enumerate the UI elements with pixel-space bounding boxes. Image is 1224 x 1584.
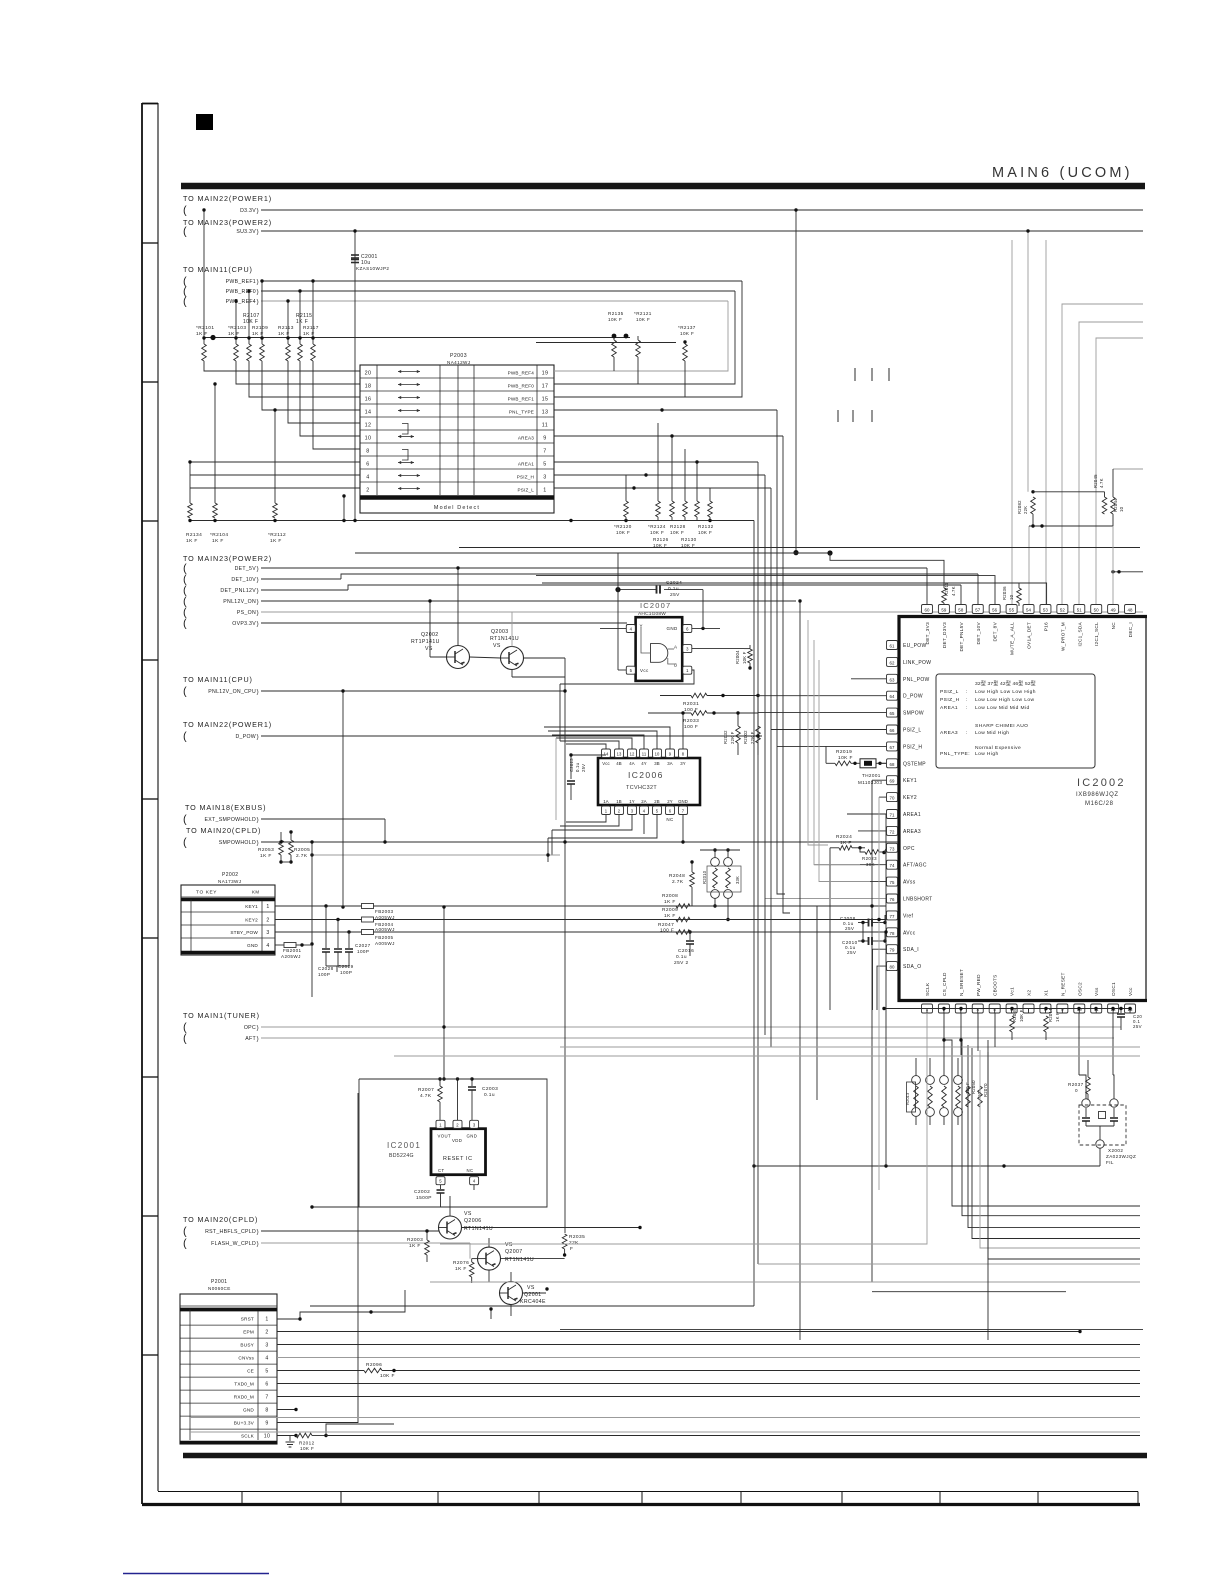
wire IC2007 gnd right: [691, 627, 720, 629]
svg-text:RESET IC: RESET IC: [443, 1156, 473, 1162]
svg-text:R2004: R2004: [735, 650, 740, 664]
svg-text:(: (: [183, 837, 187, 849]
wire caps gnd bus: [326, 965, 349, 967]
wire OVP3.3V: [261, 622, 627, 624]
svg-text:AFT/AGC: AFT/AGC: [903, 863, 927, 869]
pin 11 IC2002 Vss: [1091, 1004, 1102, 1013]
svg-text:2B: 2B: [654, 799, 659, 804]
svg-text:Low Low High Low Low: Low Low High Low Low: [975, 697, 1034, 703]
svg-text:PS_ON: PS_ON: [237, 610, 256, 616]
svg-text:KEY1: KEY1: [903, 778, 917, 784]
wire PNL12V_ON_CPU: [261, 690, 565, 692]
svg-text:0.1u: 0.1u: [575, 762, 580, 772]
svg-text:10K F: 10K F: [1019, 1009, 1024, 1022]
svg-text:AREA1: AREA1: [903, 812, 921, 818]
pin 3 IC2006: [628, 806, 637, 815]
svg-text:68: 68: [889, 762, 895, 767]
svg-text:10: 10: [655, 752, 660, 757]
pin 8 IC2006: [679, 749, 688, 758]
svg-text:71: 71: [889, 813, 895, 818]
wire cluster rails: [536, 342, 676, 344]
pin 3 IC2002 N_SRESET: [955, 1004, 966, 1013]
svg-text:): ): [257, 577, 259, 584]
svg-text:A205WJ: A205WJ: [281, 954, 301, 959]
wire DET_PNL12V: [261, 589, 348, 591]
wire PNL12V_ON: [261, 600, 796, 602]
svg-text:10K F: 10K F: [742, 651, 747, 664]
svg-text:10K F: 10K F: [636, 317, 650, 322]
svg-text:7: 7: [543, 448, 546, 454]
svg-text:52: 52: [1060, 608, 1066, 613]
svg-text:LNBSHORT: LNBSHORT: [903, 897, 933, 903]
svg-text:3: 3: [543, 474, 546, 480]
svg-text:25V: 25V: [845, 926, 855, 931]
svg-text:): ): [257, 599, 259, 606]
arrow row 6: [398, 462, 414, 464]
pin 11 IC2006: [640, 749, 649, 758]
svg-text:2Y: 2Y: [667, 799, 672, 804]
svg-text:R2128: R2128: [670, 524, 686, 529]
svg-text:DET_PNL12V: DET_PNL12V: [220, 588, 256, 594]
svg-text:NC: NC: [666, 817, 674, 822]
resistor bank R2120 R2124 R2126 R2128 R2130 R2132: [624, 501, 629, 517]
wire SMPOWHOLD: [261, 841, 898, 843]
jumper resistor column 1: [912, 1076, 921, 1085]
svg-text:NC: NC: [1111, 622, 1116, 630]
svg-text:10K F: 10K F: [698, 530, 712, 535]
svg-text:CS_CPLD: CS_CPLD: [942, 972, 947, 996]
ferrite bead FB2005: [275, 931, 362, 933]
svg-text:67: 67: [889, 745, 895, 750]
svg-text::: :: [966, 731, 968, 736]
svg-text:D_POW: D_POW: [235, 734, 256, 740]
svg-text:10K F: 10K F: [838, 755, 853, 761]
svg-text:3A: 3A: [667, 761, 672, 766]
svg-text:0.1u: 0.1u: [676, 954, 687, 960]
pin 51 IC2002 I2C1_SDA: [1074, 605, 1085, 614]
arrow row 18: [398, 384, 420, 386]
resistor R2112: [273, 503, 278, 518]
wire Q2007 net: [488, 1238, 490, 1247]
svg-text:BUSY: BUSY: [240, 1342, 254, 1347]
svg-text:): ): [257, 840, 259, 847]
svg-text:Vcc: Vcc: [1128, 987, 1133, 996]
svg-text:25V: 25V: [670, 592, 680, 598]
svg-text:IXB986WJQZ: IXB986WJQZ: [1076, 792, 1119, 798]
svg-text:1K F: 1K F: [840, 840, 852, 846]
pin 76 IC2002 LNBSHORT: [887, 894, 898, 903]
pin 80 IC2002 SDA_O: [887, 962, 898, 971]
svg-text:R2113: R2113: [278, 325, 294, 331]
svg-text:IC2001: IC2001: [387, 1141, 421, 1150]
pin 74 IC2002 AFT/AGC: [887, 860, 898, 869]
svg-text:2: 2: [265, 1329, 268, 1335]
svg-text:10K F: 10K F: [243, 319, 258, 325]
svg-text:Vc1: Vc1: [1010, 987, 1015, 996]
pin 9 IC2002 N_RESET: [1057, 1004, 1068, 1013]
svg-text:Q2006: Q2006: [464, 1218, 482, 1224]
svg-text:X2002: X2002: [1108, 1148, 1123, 1153]
pin 1 IC2006: [602, 806, 611, 815]
wire OPC AFT verticals: [443, 907, 445, 1079]
svg-text:DET_8V: DET_8V: [993, 621, 998, 641]
svg-text:SDA_I: SDA_I: [903, 947, 919, 953]
svg-text:TO MAIN11(CPU): TO MAIN11(CPU): [183, 675, 253, 684]
svg-text:Vcc: Vcc: [640, 668, 649, 673]
wire IC2006 top pins: [571, 754, 606, 756]
svg-text:KZAS10WJP2: KZAS10WJP2: [356, 266, 389, 271]
wire left verticals to lower resistors: [189, 462, 191, 503]
transistor Q2006: [439, 1216, 462, 1239]
svg-text:69: 69: [889, 779, 895, 784]
pin 66 IC2002 PSIZ_L: [887, 725, 898, 734]
svg-text:0.1u: 0.1u: [668, 586, 679, 592]
svg-text:(: (: [183, 205, 187, 217]
svg-text:*R2120: *R2120: [614, 524, 632, 529]
wire vertical x1028 top: [1027, 231, 1029, 492]
continuation ticks group 2: [837, 410, 839, 422]
svg-text:F: F: [570, 1246, 573, 1252]
svg-text:55: 55: [1009, 608, 1015, 613]
svg-text:QSTEMP: QSTEMP: [903, 761, 926, 767]
pin 57 IC2002 DET_10V: [972, 605, 983, 614]
svg-text:10K F: 10K F: [680, 331, 694, 336]
svg-text:R2037: R2037: [1068, 1082, 1084, 1087]
svg-text:CNVss: CNVss: [238, 1355, 254, 1360]
svg-text:72: 72: [889, 829, 895, 834]
svg-text:FIL: FIL: [1106, 1160, 1114, 1165]
svg-text:VOUT: VOUT: [438, 1134, 452, 1139]
jumper resistor column 3: [940, 1076, 949, 1085]
svg-text:): ): [257, 588, 259, 595]
capacitor C2036: [1120, 1009, 1122, 1014]
resistor R2035: [562, 1234, 567, 1249]
pin 53 IC2002 P16: [1040, 605, 1051, 614]
svg-text:3Y: 3Y: [680, 761, 685, 766]
svg-text:22K: 22K: [1023, 506, 1028, 514]
wire vertical x312: [311, 842, 313, 997]
svg-text:): ): [257, 621, 259, 628]
wire DET_5V: [261, 567, 927, 569]
svg-text:2.7K: 2.7K: [296, 853, 308, 859]
svg-text:R2005: R2005: [294, 847, 310, 853]
svg-text:25V 2: 25V 2: [674, 960, 689, 966]
pin 71 IC2002 AREA1: [887, 810, 898, 819]
svg-text:DET_PNL5V: DET_PNL5V: [959, 621, 964, 651]
wire pin68 qstemp: [880, 762, 887, 764]
wire D_POW: [261, 735, 762, 737]
svg-text:EU_POW: EU_POW: [903, 643, 926, 649]
svg-text:10K F: 10K F: [380, 1373, 395, 1379]
wire pin4 left: [600, 627, 626, 629]
svg-text:DET_10V: DET_10V: [231, 577, 256, 583]
svg-text:16: 16: [365, 396, 372, 402]
svg-text:OV1A_DET: OV1A_DET: [1027, 622, 1032, 649]
svg-text:R2130: R2130: [681, 537, 697, 542]
pin 8 IC2002 X1: [1040, 1004, 1051, 1013]
wire bundle verticals key: [871, 780, 873, 1282]
svg-text:): ): [257, 1036, 259, 1043]
wire DET_10V: [261, 578, 341, 580]
svg-text:PWB_REF1: PWB_REF1: [508, 396, 535, 401]
svg-text:RT1P141U: RT1P141U: [411, 639, 440, 645]
svg-text:SCLK: SCLK: [241, 1433, 255, 1438]
svg-text:PNL12V_ON: PNL12V_ON: [223, 599, 256, 605]
svg-text:FLASH_W_CPLD: FLASH_W_CPLD: [211, 1241, 256, 1247]
blue revision line: [123, 1573, 269, 1575]
svg-text:75: 75: [889, 880, 895, 885]
svg-text:*R2101: *R2101: [196, 325, 214, 331]
svg-text:R2031: R2031: [683, 701, 699, 707]
svg-text:100 F: 100 F: [684, 724, 698, 730]
pin 2 IC2001: [453, 1120, 462, 1128]
svg-text:1K F: 1K F: [296, 319, 308, 325]
wire D3.3V: [261, 209, 1143, 211]
svg-text::: :: [966, 690, 968, 695]
ground: [289, 1436, 291, 1442]
pin 4 IC2002 PW_RED: [972, 1004, 983, 1013]
wire bottom pin drops: [440, 1013, 927, 1244]
svg-text:Low High: Low High: [975, 751, 999, 757]
svg-text:1K F: 1K F: [1055, 1012, 1060, 1022]
section marker square: [196, 114, 213, 130]
capacitor C2029: [337, 920, 339, 949]
resistor R2023: [865, 850, 879, 855]
resistor R2134: [188, 503, 193, 518]
svg-text:M16C/28: M16C/28: [1085, 801, 1114, 807]
svg-text:Normal Expensive: Normal Expensive: [975, 745, 1021, 751]
wire P2001 TXD0_M: [277, 1383, 1140, 1385]
svg-text:VDD: VDD: [452, 1138, 462, 1143]
pin 6 IC2006: [666, 806, 675, 815]
wire pin79 pin80: [873, 949, 887, 1010]
svg-text:C2028: C2028: [318, 966, 334, 971]
svg-text:VS: VS: [464, 1211, 472, 1217]
svg-text:(: (: [183, 814, 187, 826]
svg-text:SMPOWHOLD: SMPOWHOLD: [219, 840, 256, 846]
wire IC2001 pin2 up: [457, 1079, 459, 1120]
svg-text:CT: CT: [438, 1168, 445, 1173]
wire Q2002 Q2003 links: [430, 656, 447, 658]
svg-text:10K F: 10K F: [608, 317, 622, 322]
svg-text:1K F: 1K F: [186, 538, 198, 544]
pin 3 IC2001: [470, 1120, 479, 1128]
pin 73 IC2002 OPC: [887, 843, 898, 852]
svg-text:4.7K: 4.7K: [951, 586, 956, 596]
svg-text:14: 14: [365, 409, 372, 415]
svg-text:*R2124: *R2124: [648, 524, 666, 529]
svg-text:22K F: 22K F: [730, 731, 735, 744]
wire PWB_REF4: [261, 300, 728, 302]
svg-text:5: 5: [265, 1368, 268, 1374]
svg-text:OSC2: OSC2: [1077, 982, 1082, 996]
pin 5 IC2007: [626, 666, 635, 674]
svg-text:OPC: OPC: [244, 1025, 256, 1031]
svg-text:N0060CE: N0060CE: [208, 1286, 231, 1291]
svg-text:RT1N141U: RT1N141U: [464, 1226, 493, 1232]
svg-text:3: 3: [265, 1342, 268, 1348]
svg-text:AREA3: AREA3: [940, 730, 958, 736]
pin 5 IC2006: [653, 806, 662, 815]
wire IC2006 bottom pins: [566, 815, 606, 823]
arrow link rows 12-10: [402, 424, 408, 435]
wire P2001 SCLK / resistor R2012: [277, 1435, 296, 1437]
pin 1 IC2001: [436, 1120, 445, 1128]
svg-text:KRC404E: KRC404E: [520, 1299, 546, 1305]
wire AFT: [261, 1037, 1114, 1039]
svg-text:4B: 4B: [616, 761, 621, 766]
svg-text:I2C1_SCL: I2C1_SCL: [1094, 622, 1099, 646]
svg-text:MAIN6 (UCOM): MAIN6 (UCOM): [992, 165, 1133, 181]
continuation ticks group 1: [854, 368, 856, 381]
svg-text:VS: VS: [527, 1285, 535, 1291]
pin 4 IC2007: [626, 625, 635, 633]
svg-text:3: 3: [266, 930, 269, 936]
pin 7 IC2006: [679, 806, 688, 815]
pin 10 IC2002 OSC2: [1074, 1004, 1085, 1013]
svg-text:D3.3V: D3.3V: [240, 208, 256, 214]
svg-text:4.7K: 4.7K: [1099, 478, 1104, 488]
wire vertical x796: [795, 210, 797, 553]
svg-text:R2013: R2013: [905, 1092, 910, 1105]
wire bundle left of IC2002 lower: [987, 1040, 989, 1340]
svg-text:GND: GND: [467, 1134, 478, 1139]
svg-text:7: 7: [265, 1394, 268, 1400]
svg-text:TO MAIN11(CPU): TO MAIN11(CPU): [183, 265, 253, 274]
arrow row 14: [398, 410, 420, 412]
svg-text:): ): [257, 610, 259, 617]
wire resistor top bus: [204, 337, 630, 339]
svg-text:(: (: [183, 226, 187, 238]
pin 79 IC2002 SDA_I: [887, 945, 898, 954]
svg-text:1K F: 1K F: [409, 1243, 421, 1249]
svg-text:N_SRESET: N_SRESET: [959, 969, 964, 996]
resistor R2050: [966, 1086, 971, 1107]
svg-text:DET_10V: DET_10V: [976, 621, 981, 644]
svg-text:*R2112: *R2112: [268, 532, 286, 538]
pin 54 IC2002 OV1A_DET: [1023, 605, 1034, 614]
ferrite bead FB2004: [275, 919, 362, 921]
wire P2001 CE / resistor R2096: [277, 1370, 364, 1372]
svg-text:TXD0_M: TXD0_M: [234, 1381, 254, 1386]
svg-text:70: 70: [889, 796, 895, 801]
svg-text:13: 13: [542, 409, 549, 415]
pin 6 IC2002 Vc1: [1006, 1004, 1017, 1013]
wire IC2007 pin B loop: [560, 670, 694, 684]
svg-text:4: 4: [265, 1355, 268, 1361]
svg-text:EPM: EPM: [243, 1329, 254, 1334]
svg-text:(: (: [183, 1033, 187, 1045]
page border bottom: [142, 1503, 1140, 1506]
svg-text:X2: X2: [1027, 990, 1032, 996]
jumper resistor column 4: [954, 1076, 963, 1085]
svg-text:12: 12: [630, 752, 635, 757]
pin 59 IC2002 DET_D3V3: [938, 605, 949, 614]
svg-text:AREA3: AREA3: [903, 829, 921, 835]
svg-text:78: 78: [889, 931, 895, 936]
wire IC2007 pin A right: [692, 648, 744, 650]
svg-text:TCVHC32T: TCVHC32T: [626, 785, 657, 791]
arrow link rows 8-6: [402, 450, 408, 461]
svg-text:NA412WJ: NA412WJ: [447, 360, 470, 365]
wire SU3.3V: [261, 230, 1143, 232]
svg-text:DET_3V3: DET_3V3: [925, 622, 930, 645]
wire r-cluster bottom: [1029, 525, 1113, 527]
wire IC2002 left pin stubs: [851, 678, 887, 680]
svg-text:LINK_POW: LINK_POW: [903, 660, 931, 666]
capacitor C2024: [618, 589, 656, 591]
resistor bank element x204: [203, 338, 205, 344]
pin 2 IC2002 CS_CPLD: [938, 1004, 949, 1013]
pin 4 IC2001: [470, 1177, 479, 1185]
svg-text:A005WJ: A005WJ: [375, 927, 395, 932]
svg-text:KEY2: KEY2: [245, 917, 258, 922]
svg-text:C2002: C2002: [414, 1189, 430, 1195]
svg-text:R2035: R2035: [569, 1234, 585, 1240]
svg-text:I2C1_SDA: I2C1_SDA: [1077, 621, 1082, 646]
svg-text:R2048: R2048: [669, 873, 685, 879]
svg-text:14: 14: [604, 752, 609, 757]
wire P2001 SRST: [277, 1290, 405, 1319]
resistor R2070: [978, 1086, 983, 1107]
wire P2001 EPM: [277, 1331, 1080, 1333]
svg-text:76: 76: [889, 897, 895, 902]
wire PWB_REF1: [261, 280, 742, 282]
pin 48 IC2002 DEC_I: [1125, 605, 1136, 614]
svg-text:P2003: P2003: [450, 353, 467, 359]
svg-text:AREA1: AREA1: [940, 705, 958, 711]
svg-text:25V: 25V: [581, 764, 586, 772]
svg-text:AHC1G08W: AHC1G08W: [638, 611, 666, 617]
svg-text:R2070: R2070: [983, 1083, 988, 1097]
svg-text:77: 77: [889, 914, 895, 919]
svg-text:): ): [257, 817, 259, 824]
svg-text:DET_D3V3: DET_D3V3: [942, 622, 947, 648]
svg-text:15: 15: [542, 396, 549, 402]
svg-text:11: 11: [542, 422, 548, 428]
wire bundle verticals mid: [757, 462, 759, 1264]
svg-text:19: 19: [542, 370, 549, 376]
wire P2001 BU33V: [277, 1093, 358, 1423]
connector P2002 table: [181, 885, 275, 955]
resistor bank element x313: [312, 338, 314, 344]
svg-text:R2007: R2007: [418, 1087, 434, 1093]
svg-text:20: 20: [365, 370, 372, 376]
svg-text:0.1u: 0.1u: [484, 1092, 495, 1098]
svg-text:PNL_TYPE:: PNL_TYPE:: [940, 751, 970, 757]
svg-text:1K F: 1K F: [260, 853, 272, 859]
wire P2001 CNVss: [277, 1357, 1140, 1359]
svg-text:C2023: C2023: [569, 758, 574, 772]
svg-text:ZA023WJQZ: ZA023WJQZ: [1106, 1154, 1136, 1159]
svg-text:RT1N141U: RT1N141U: [505, 1257, 534, 1263]
crystal X2002: [1079, 1105, 1126, 1145]
pin 3 IC2007: [683, 645, 692, 653]
svg-text:IC2006: IC2006: [628, 770, 664, 780]
capacitor C2002: [440, 1185, 442, 1189]
svg-text:(: (: [183, 618, 187, 630]
svg-text:8: 8: [366, 448, 369, 454]
svg-text:OSC1: OSC1: [1111, 982, 1116, 996]
svg-text:53: 53: [1043, 608, 1049, 613]
pin 77 IC2002 Vref: [887, 911, 898, 920]
resistor bank element x249: [248, 338, 250, 344]
wire rail y855: [312, 854, 560, 856]
svg-text:PWB_REF1: PWB_REF1: [226, 279, 256, 285]
svg-text:M1103J03: M1103J03: [858, 780, 882, 785]
svg-text:BD5224G: BD5224G: [389, 1153, 414, 1159]
svg-text:AREA1: AREA1: [518, 461, 534, 466]
